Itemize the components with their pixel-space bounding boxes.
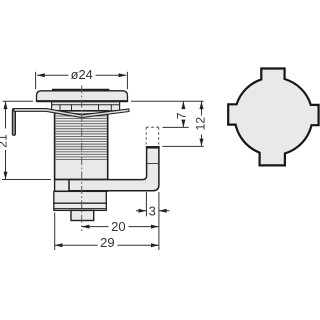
thread lines bbox=[55, 113, 107, 159]
dimension 21 line and arrows bbox=[4, 101, 8, 179]
head cap bbox=[37, 90, 128, 101]
extension line from cam hook top bbox=[162, 145, 203, 147]
dimension o24 text bbox=[71, 67, 93, 82]
dimension 12 line and arrows bbox=[200, 101, 204, 146]
mounting plane extension line left of cap bbox=[3, 100, 34, 102]
panel cutout shape (circle with four tabs) bbox=[228, 69, 318, 166]
dimension o24 extension line right bbox=[126, 72, 128, 89]
dimension 3 lines and arrows bbox=[136, 209, 170, 213]
extension line cam thickness left bbox=[145, 192, 147, 216]
threaded body bbox=[55, 111, 108, 180]
neck flange bbox=[52, 102, 120, 111]
svg-text:ø24: ø24 bbox=[71, 67, 93, 82]
extension line from dashed cam top bbox=[163, 126, 189, 128]
spindle knob bbox=[71, 210, 94, 220]
lower extension line for 21 bbox=[2, 179, 51, 181]
svg-text:3: 3 bbox=[149, 203, 156, 218]
svg-text:21: 21 bbox=[0, 134, 9, 148]
dimension 20 line and arrows bbox=[82, 225, 159, 229]
dimension 7 text (rotated) bbox=[174, 112, 188, 119]
svg-text:12: 12 bbox=[193, 117, 207, 131]
dimension 29 line and arrows bbox=[55, 243, 159, 247]
dimension 7 line and arrows bbox=[181, 101, 185, 127]
dimension o24 extension line left bbox=[35, 72, 37, 89]
cam hook (L-shaped) bbox=[69, 147, 159, 191]
dimension 12 text (rotated) bbox=[193, 117, 207, 131]
nut band below thread bbox=[55, 180, 108, 192]
extension line body left for 29 bbox=[54, 213, 56, 251]
mounting plane extension line right of cap bbox=[131, 100, 204, 102]
washer stack bbox=[54, 191, 107, 210]
dimension 20 text bbox=[111, 219, 125, 234]
svg-text:7: 7 bbox=[174, 112, 188, 119]
svg-text:29: 29 bbox=[100, 235, 114, 250]
spring washer (V shape) bbox=[14, 109, 129, 118]
svg-text:20: 20 bbox=[111, 219, 125, 234]
dimension o24 line and arrows bbox=[37, 73, 126, 77]
cam raised position (dashed) bbox=[146, 127, 159, 144]
centerline (lock axis) bbox=[81, 85, 83, 231]
retaining clip leg bbox=[12, 109, 15, 136]
dimension 3 text bbox=[149, 203, 156, 218]
extension line cam outer edge bbox=[158, 192, 160, 250]
dimension 29 text bbox=[100, 235, 114, 250]
dimension 21 text (rotated) bbox=[0, 134, 9, 148]
